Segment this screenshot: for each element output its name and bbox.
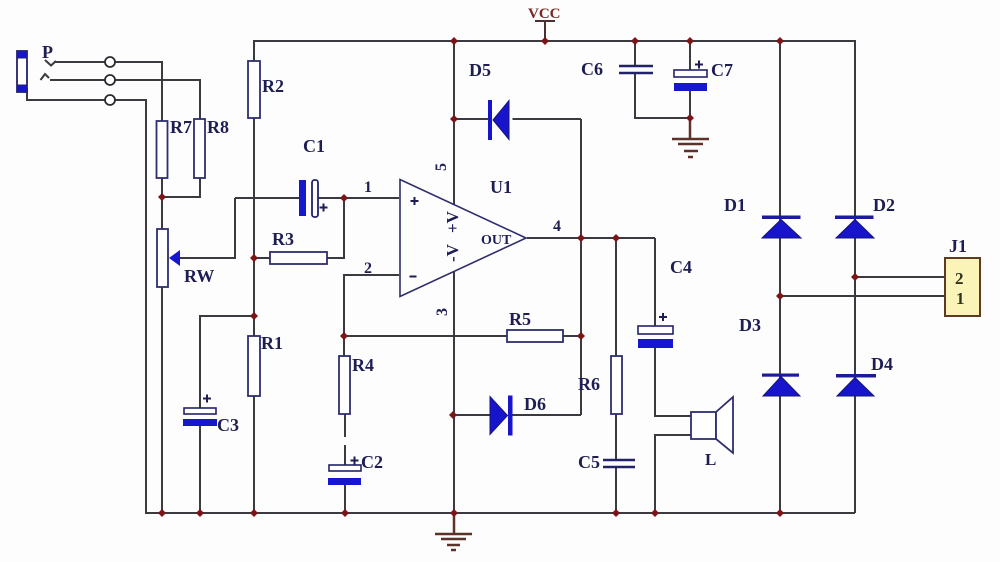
svg-text:1: 1 [956,289,965,308]
svg-text:5: 5 [433,163,450,171]
svg-text:R6: R6 [578,374,600,394]
svg-text:2: 2 [364,260,372,277]
svg-text:D5: D5 [469,60,491,80]
svg-text:U1: U1 [490,177,512,197]
svg-text:R4: R4 [352,355,374,375]
svg-text:C5: C5 [578,452,600,472]
svg-text:4: 4 [553,218,561,235]
svg-text:-V: -V [443,243,462,262]
svg-text:C6: C6 [581,59,603,79]
svg-text:R8: R8 [207,117,229,137]
svg-text:D3: D3 [739,315,761,335]
svg-text:R2: R2 [262,76,284,96]
svg-text:D2: D2 [873,195,895,215]
svg-text:OUT: OUT [481,233,512,248]
svg-text:C2: C2 [361,452,383,472]
svg-text:L: L [705,450,716,469]
svg-text:P: P [42,42,53,62]
svg-text:R5: R5 [509,309,531,329]
svg-text:D6: D6 [524,394,546,414]
svg-text:J1: J1 [949,236,967,256]
svg-text:C1: C1 [303,136,325,156]
svg-text:R1: R1 [261,333,283,353]
svg-text:C4: C4 [670,257,692,277]
svg-text:VCC: VCC [528,6,561,22]
svg-text:2: 2 [955,269,964,288]
svg-text:C3: C3 [217,415,239,435]
svg-text:R3: R3 [272,229,294,249]
svg-text:C7: C7 [711,60,733,80]
svg-text:R7: R7 [170,117,192,137]
svg-text:D4: D4 [871,354,893,374]
svg-text:+V: +V [443,210,462,233]
svg-text:RW: RW [184,266,214,286]
svg-text:D1: D1 [724,195,746,215]
svg-text:1: 1 [364,179,372,196]
svg-text:3: 3 [434,308,451,316]
